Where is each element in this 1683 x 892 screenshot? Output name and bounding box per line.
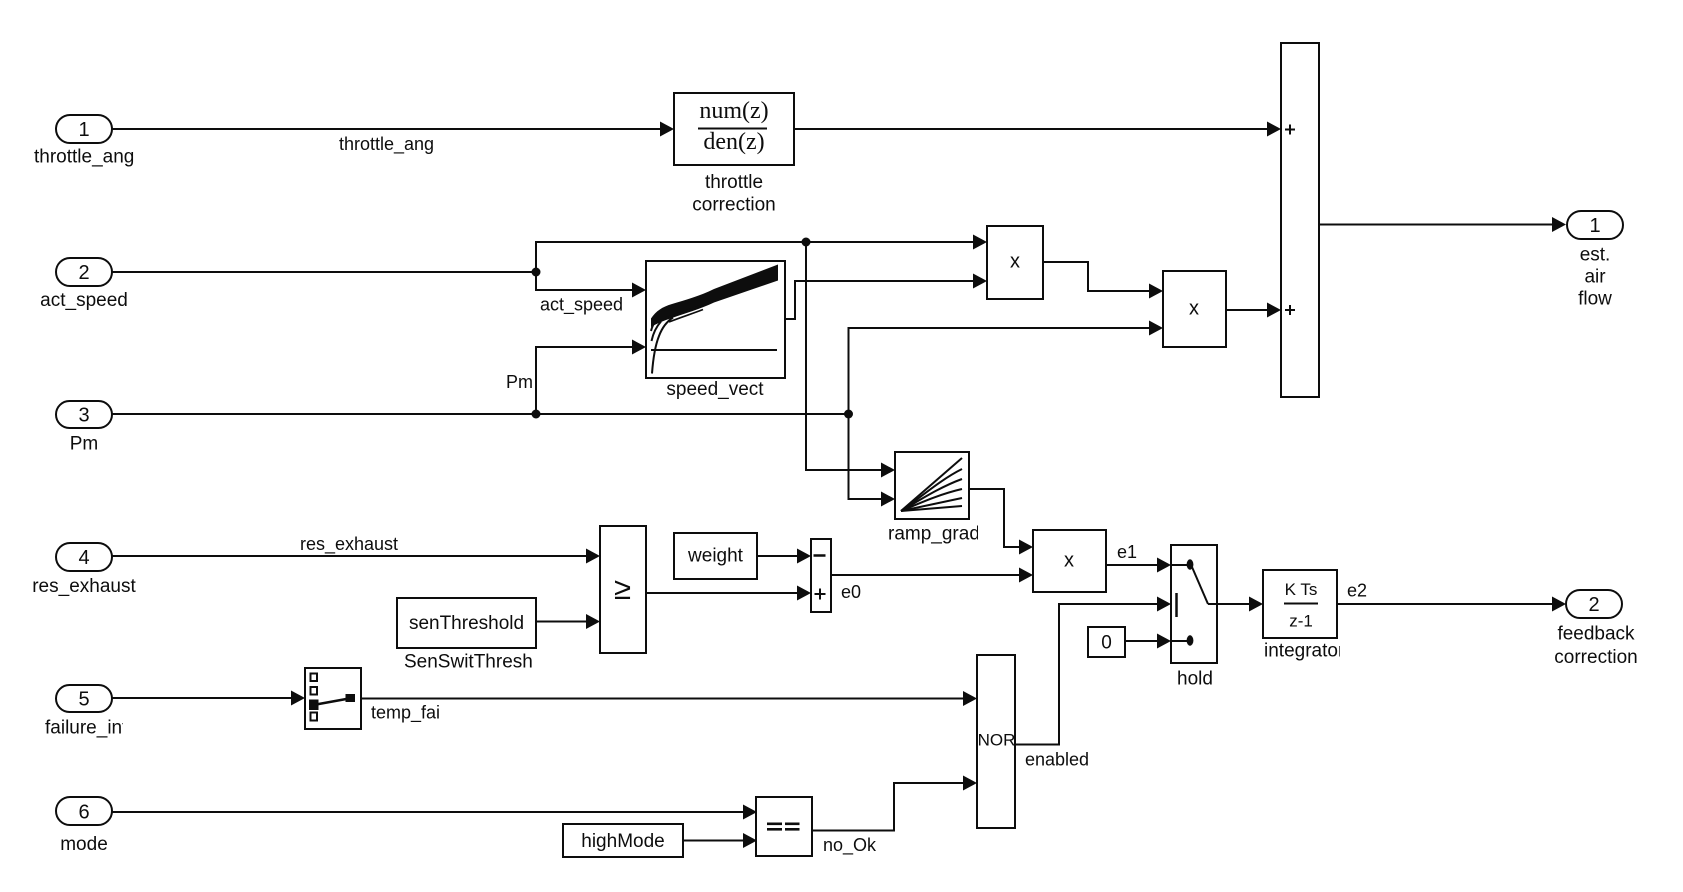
icon selector squares bbox=[311, 674, 318, 721]
svg-text:feedback: feedback bbox=[1557, 624, 1635, 645]
svg-text:act_speed: act_speed bbox=[540, 295, 623, 316]
block constant 0 bbox=[1088, 627, 1125, 657]
wire product1 output to product2 in1 bbox=[1043, 262, 1150, 291]
block NOR logical operator bbox=[977, 655, 1015, 828]
arrowhead into est air flow outport bbox=[1552, 217, 1566, 232]
svg-text:integrator: integrator bbox=[1264, 641, 1345, 662]
junction node act_speed top branch bbox=[802, 238, 811, 247]
svg-text:speed_vect: speed_vect bbox=[666, 379, 764, 400]
arrowhead into feedback correction outport bbox=[1552, 597, 1566, 612]
arrowhead into ramp_grad in1 bbox=[881, 463, 895, 478]
arrowhead into product2 in2 bbox=[1149, 321, 1163, 336]
svg-text:5: 5 bbox=[78, 689, 89, 711]
wire constant 0 to hold in3 bbox=[1125, 640, 1158, 642]
svg-text:4: 4 bbox=[78, 547, 89, 569]
sum plus sign in2 bbox=[1285, 305, 1295, 315]
arrowhead into compare in1 bbox=[743, 805, 757, 820]
svg-text:air: air bbox=[1584, 267, 1606, 288]
icon compare equals signs bbox=[767, 823, 800, 831]
icon speed_vect thin curves bbox=[651, 305, 704, 374]
wire selector output temp_fail to NOR in1 bbox=[361, 698, 964, 700]
svg-text:Pm: Pm bbox=[70, 434, 99, 455]
junction node Pm left bbox=[532, 410, 541, 419]
wire weight to sum2 minus input bbox=[757, 555, 798, 557]
wire integrator output e2 to feedback correction outport bbox=[1337, 603, 1554, 605]
arrowhead into speed_vect in2 bbox=[632, 340, 646, 355]
sum2 plus sign bbox=[815, 589, 826, 600]
wire sum output to est air flow outport bbox=[1318, 224, 1554, 226]
arrowhead into sum in2 bbox=[1267, 303, 1281, 318]
input port 3 oval bbox=[56, 401, 112, 428]
arrowhead into integrator bbox=[1249, 597, 1263, 612]
arrowhead into NOR in1 bbox=[963, 691, 977, 706]
icon hold port oval in1 bbox=[1187, 559, 1194, 569]
wire throttle correction to sum in1 bbox=[794, 128, 1269, 130]
arrowhead into product1 in2 bbox=[973, 274, 987, 289]
wire port1 to throttle correction bbox=[112, 128, 662, 130]
svg-text:no_Ok: no_Ok bbox=[823, 835, 877, 856]
arrowhead into ramp_grad in2 bbox=[881, 492, 895, 507]
svg-text:highMode: highMode bbox=[581, 831, 664, 852]
svg-text:ramp_grade: ramp_grade bbox=[888, 524, 990, 545]
junction node Pm right bbox=[844, 410, 853, 419]
svg-text:den(z): den(z) bbox=[703, 129, 764, 155]
svg-text:res_exhaust: res_exhaust bbox=[32, 576, 136, 597]
arrowhead into sum2 minus input bbox=[797, 549, 811, 564]
arrowhead into hold in1 bbox=[1157, 558, 1171, 573]
input port 2 oval bbox=[56, 258, 112, 286]
wire speed_vect output to product1 in2 bbox=[785, 281, 974, 319]
svg-text:enabled: enabled bbox=[1025, 750, 1089, 770]
junction node act_speed bbox=[532, 268, 541, 277]
wire port6 mode to compare block in1 bbox=[112, 811, 744, 813]
wire product2 output to sum in2 bbox=[1226, 309, 1268, 311]
block sum2 e0 bbox=[811, 539, 831, 612]
arrowhead into compare in2 bbox=[743, 833, 757, 848]
svg-text:2: 2 bbox=[1588, 594, 1599, 616]
wire port4 res_exhaust to relational operator in1 bbox=[112, 555, 587, 557]
svg-text:mode: mode bbox=[60, 834, 108, 855]
wire sum2 output e0 to product3 in2 bbox=[831, 574, 1020, 576]
wire ramp_grad output to product3 in1 bbox=[969, 489, 1020, 547]
icon selector filled end square bbox=[346, 694, 356, 702]
block product2 bbox=[1163, 271, 1226, 347]
svg-text:hold: hold bbox=[1177, 669, 1213, 690]
svg-text:0: 0 bbox=[1101, 633, 1112, 654]
svg-text:est.: est. bbox=[1580, 245, 1611, 266]
wire Pm right junction up to product2 in2 bbox=[849, 328, 1151, 414]
wire Pm junction up to speed_vect in2 bbox=[536, 347, 634, 414]
svg-text:flow: flow bbox=[1578, 289, 1612, 310]
icon hold port oval in3 bbox=[1187, 635, 1194, 645]
svg-text:correction: correction bbox=[692, 195, 775, 216]
arrowhead into hold in3 bbox=[1157, 634, 1171, 649]
sum plus sign in1 bbox=[1285, 125, 1295, 135]
wire Pm right junction down to ramp_grad in2 bbox=[849, 414, 883, 499]
svg-text:act_speed: act_speed bbox=[40, 290, 128, 311]
svg-text:NOR: NOR bbox=[978, 731, 1016, 750]
wire senThreshold to relational operator in2 bbox=[536, 621, 587, 623]
svg-text:correction: correction bbox=[1554, 647, 1637, 668]
svg-text:num(z): num(z) bbox=[699, 98, 768, 124]
fraction line K Ts / z-1 bbox=[1284, 603, 1318, 605]
arrowhead into product1 in1 bbox=[973, 235, 987, 250]
block relational operator bbox=[600, 526, 646, 653]
block product3 bbox=[1033, 530, 1106, 592]
block product1 bbox=[987, 226, 1043, 299]
arrowhead into product3 in1 bbox=[1019, 540, 1033, 555]
icon selector filled input square bbox=[309, 700, 319, 711]
svg-text:throttle_angle: throttle_angle bbox=[34, 147, 149, 168]
svg-text:x: x bbox=[1189, 298, 1199, 320]
wire port5 failure_info to selector bbox=[112, 697, 292, 699]
svg-text:3: 3 bbox=[78, 405, 89, 427]
svg-text:1: 1 bbox=[78, 119, 89, 141]
block hold (switch) bbox=[1171, 545, 1217, 663]
wire NOR output enabled to hold control input bbox=[1015, 604, 1158, 745]
svg-text:e0: e0 bbox=[841, 582, 861, 602]
input port 5 oval bbox=[56, 685, 112, 712]
wire act_speed junction up to top branch bbox=[536, 242, 974, 272]
icon hold switch internals bbox=[1171, 565, 1217, 641]
svg-text:throttle_ang: throttle_ang bbox=[339, 134, 434, 155]
svg-text:Pm: Pm bbox=[506, 372, 533, 392]
input port 1 oval bbox=[56, 115, 112, 143]
svg-text:6: 6 bbox=[78, 802, 89, 824]
block throttle correction (discrete transfer fcn) bbox=[674, 93, 794, 165]
arrowhead into relational operator in1 bbox=[586, 549, 600, 564]
svg-text:throttle: throttle bbox=[705, 172, 763, 193]
wire product3 output e1 to hold in1 bbox=[1106, 564, 1158, 566]
wire highMode to compare block in2 bbox=[683, 840, 744, 842]
wire act_speed top branch down to ramp_grad in1 bbox=[806, 242, 882, 470]
svg-text:x: x bbox=[1010, 251, 1020, 273]
svg-text:weight: weight bbox=[687, 546, 744, 567]
arrowhead into speed_vect in1 bbox=[632, 283, 646, 298]
block constant highMode bbox=[563, 824, 683, 857]
arrowhead into hold control input bbox=[1157, 597, 1171, 612]
arrowhead into sum2 plus input bbox=[797, 586, 811, 601]
wire port2 act_speed to junction bbox=[112, 271, 536, 273]
svg-text:≥: ≥ bbox=[614, 571, 631, 606]
block constant weight bbox=[674, 533, 757, 579]
icon speed_vect axis line bbox=[651, 349, 777, 351]
arrowhead into product2 in1 bbox=[1149, 284, 1163, 299]
block integrator (discrete) bbox=[1263, 570, 1337, 638]
svg-text:x: x bbox=[1064, 550, 1074, 572]
svg-text:e2: e2 bbox=[1347, 581, 1367, 601]
wire act_speed junction to speed_vect in1 bbox=[536, 272, 634, 290]
icon speed_vect plot band bbox=[651, 265, 778, 328]
arrowhead into selector bbox=[291, 691, 305, 706]
svg-text:z-1: z-1 bbox=[1289, 612, 1313, 631]
svg-text:res_exhaust: res_exhaust bbox=[300, 534, 398, 555]
fraction line num/den bbox=[698, 128, 767, 130]
block compare == bbox=[756, 797, 812, 856]
output port 1 oval bbox=[1567, 211, 1623, 239]
input port 4 oval bbox=[56, 543, 112, 571]
svg-text:2: 2 bbox=[78, 262, 89, 284]
arrowhead into product3 in2 bbox=[1019, 568, 1033, 583]
svg-text:K Ts: K Ts bbox=[1285, 580, 1318, 599]
wire compare output no_Ok to NOR in2 bbox=[812, 783, 964, 831]
arrowhead into throttle correction bbox=[660, 122, 674, 137]
arrowhead into NOR in2 bbox=[963, 776, 977, 791]
block speed_vect (lookup table) bbox=[646, 261, 785, 378]
arrowhead into relational operator in2 bbox=[586, 614, 600, 629]
wire relational operator output to sum2 plus input bbox=[646, 592, 798, 594]
block ramp_grad (lookup table) bbox=[895, 452, 969, 519]
wire port3 Pm to junction bbox=[112, 413, 849, 415]
svg-text:senThreshold: senThreshold bbox=[409, 613, 524, 634]
block constant senThreshold bbox=[397, 598, 536, 648]
block selector bbox=[305, 668, 361, 729]
output port 2 oval bbox=[1566, 590, 1622, 618]
svg-text:1: 1 bbox=[1589, 215, 1600, 237]
icon ramp_grad fan lines bbox=[901, 458, 962, 511]
wire hold output to integrator bbox=[1217, 603, 1250, 605]
icon selector slanted line bbox=[316, 699, 349, 705]
input port 6 oval bbox=[56, 797, 112, 825]
svg-text:temp_fail: temp_fail bbox=[371, 703, 444, 724]
block sum (est air flow) bbox=[1281, 43, 1319, 397]
arrowhead into sum in1 bbox=[1267, 122, 1281, 137]
sum2 minus sign bbox=[814, 554, 826, 557]
svg-text:e1: e1 bbox=[1117, 542, 1137, 562]
